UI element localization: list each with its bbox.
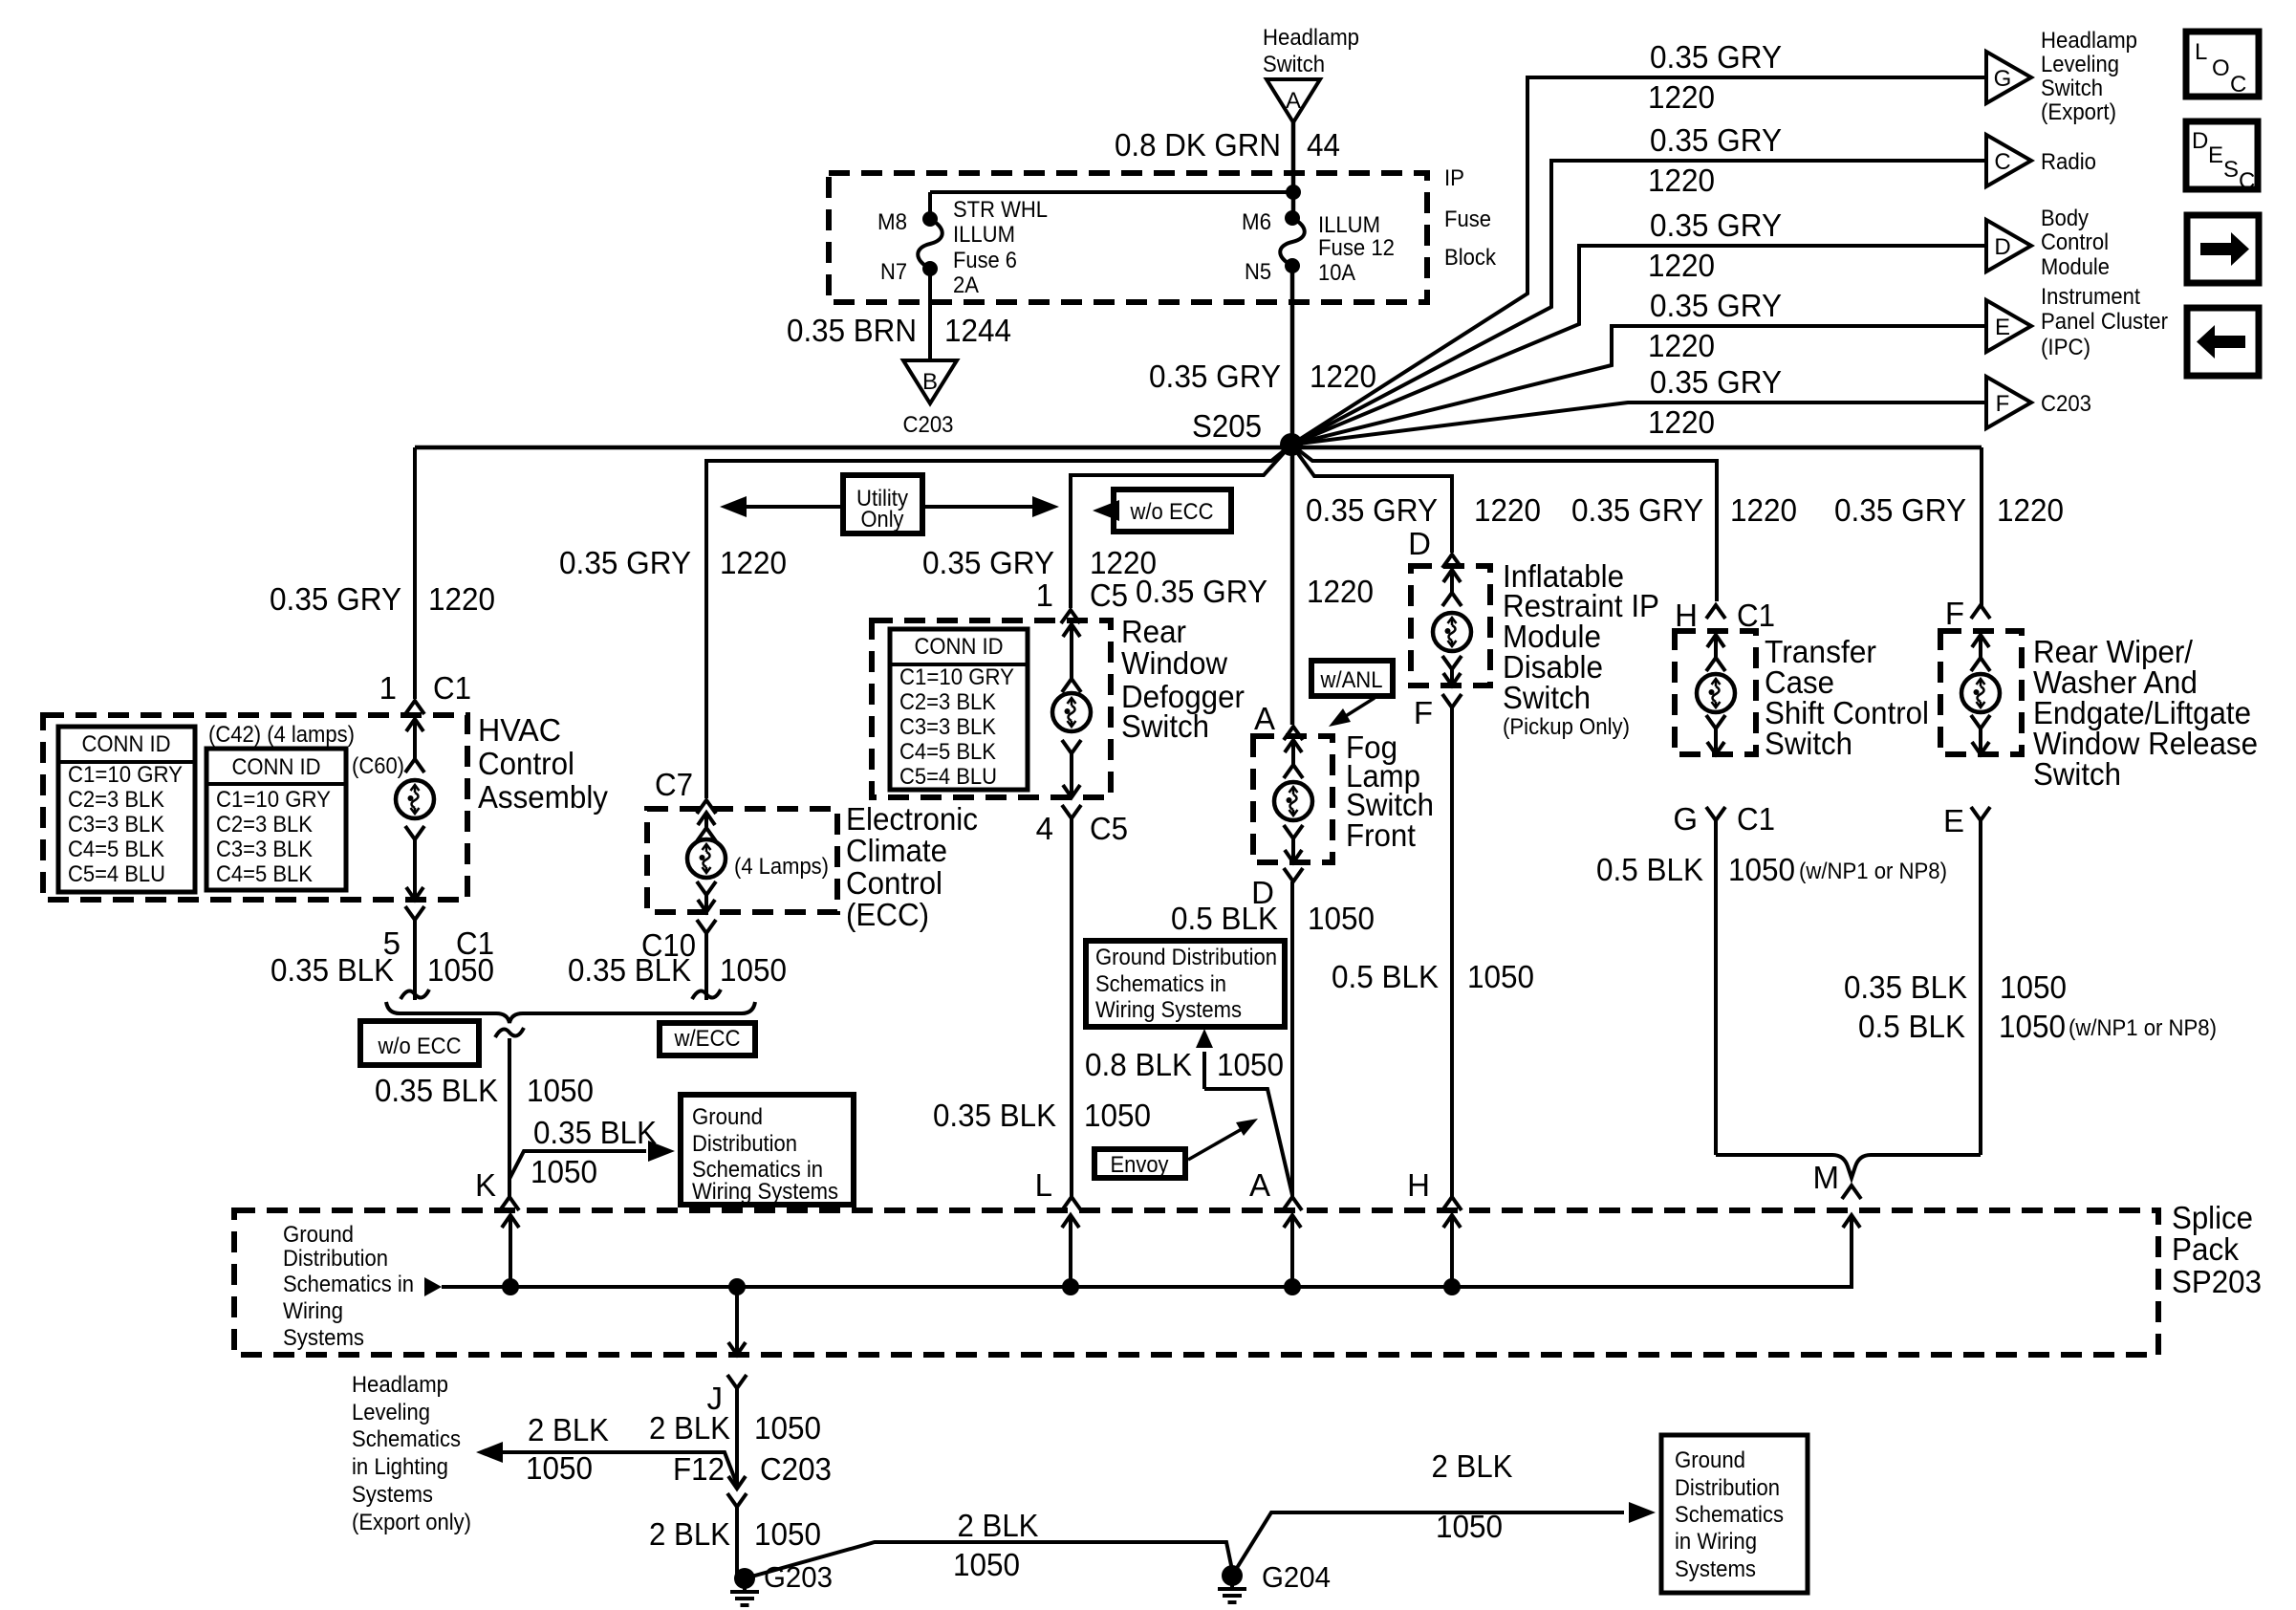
svg-text:Electronic: Electronic	[846, 801, 978, 837]
svg-text:Fuse 6: Fuse 6	[953, 248, 1017, 273]
svg-text:1050: 1050	[754, 1516, 821, 1552]
svg-text:Schematics in: Schematics in	[283, 1272, 414, 1297]
svg-text:(Export only): (Export only)	[352, 1510, 471, 1535]
svg-text:C4=5 BLK: C4=5 BLK	[68, 837, 164, 862]
svg-text:Schematics: Schematics	[1675, 1502, 1784, 1528]
svg-text:2 BLK: 2 BLK	[649, 1410, 730, 1446]
svg-text:H: H	[1675, 598, 1698, 633]
svg-text:A: A	[1249, 1167, 1270, 1203]
svg-text:Envoy: Envoy	[1111, 1152, 1169, 1178]
svg-text:K: K	[475, 1167, 496, 1203]
svg-text:C1: C1	[433, 670, 471, 706]
svg-text:Headlamp: Headlamp	[2041, 28, 2137, 54]
svg-text:E: E	[2208, 142, 2223, 168]
svg-text:M6: M6	[1242, 209, 1271, 235]
svg-text:1220: 1220	[1648, 328, 1715, 363]
svg-text:0.35 GRY: 0.35 GRY	[1650, 364, 1782, 400]
svg-text:Headlamp: Headlamp	[352, 1372, 448, 1398]
svg-text:0.5 BLK: 0.5 BLK	[1332, 959, 1439, 994]
svg-text:Radio: Radio	[2041, 149, 2096, 175]
svg-text:Ground: Ground	[1675, 1447, 1745, 1473]
svg-text:S: S	[2223, 157, 2239, 183]
svg-text:0.35 GRY: 0.35 GRY	[270, 581, 401, 617]
svg-text:G204: G204	[1262, 1560, 1331, 1594]
svg-text:STR WHL: STR WHL	[953, 197, 1048, 223]
svg-text:F: F	[1996, 391, 2010, 417]
svg-text:C3=3 BLK: C3=3 BLK	[68, 812, 164, 838]
svg-text:1050: 1050	[427, 952, 494, 988]
svg-text:0.35 BLK: 0.35 BLK	[533, 1115, 657, 1150]
svg-text:1050: 1050	[953, 1547, 1020, 1582]
svg-text:G: G	[1673, 801, 1698, 837]
svg-text:2 BLK: 2 BLK	[649, 1516, 730, 1552]
svg-text:0.35 GRY: 0.35 GRY	[559, 545, 691, 580]
svg-text:C1: C1	[1737, 801, 1775, 837]
svg-text:0.35 BRN: 0.35 BRN	[787, 313, 917, 348]
svg-text:Wiring Systems: Wiring Systems	[692, 1179, 838, 1205]
svg-text:0.35 GRY: 0.35 GRY	[1149, 359, 1281, 394]
svg-text:Instrument: Instrument	[2041, 284, 2140, 310]
svg-text:Switch: Switch	[1765, 726, 1852, 761]
svg-text:2 BLK: 2 BLK	[958, 1508, 1039, 1543]
svg-text:Body: Body	[2041, 206, 2089, 231]
svg-text:1050: 1050	[1308, 901, 1375, 936]
svg-text:C1=10 GRY: C1=10 GRY	[68, 762, 183, 788]
svg-text:L: L	[1035, 1167, 1052, 1203]
svg-text:2 BLK: 2 BLK	[1432, 1448, 1513, 1484]
svg-text:2 BLK: 2 BLK	[528, 1412, 609, 1447]
svg-text:Pack: Pack	[2172, 1231, 2239, 1267]
svg-text:Control: Control	[478, 746, 574, 781]
svg-text:2A: 2A	[953, 272, 979, 298]
svg-text:L: L	[2195, 39, 2207, 65]
svg-text:1: 1	[1036, 577, 1053, 613]
svg-text:1050: 1050	[1084, 1098, 1151, 1133]
svg-text:F: F	[1414, 695, 1433, 730]
svg-text:Ground: Ground	[692, 1104, 763, 1130]
svg-text:M: M	[1813, 1160, 1840, 1195]
svg-text:0.35 GRY: 0.35 GRY	[922, 545, 1054, 580]
svg-text:1: 1	[379, 670, 397, 706]
svg-text:C3=3 BLK: C3=3 BLK	[899, 714, 996, 740]
svg-text:A: A	[1286, 88, 1301, 114]
svg-text:1050: 1050	[1436, 1509, 1503, 1544]
svg-text:H: H	[1407, 1167, 1430, 1203]
svg-text:0.35 GRY: 0.35 GRY	[1650, 122, 1782, 158]
svg-text:F: F	[1945, 596, 1964, 631]
svg-text:C2=3 BLK: C2=3 BLK	[899, 689, 996, 715]
svg-text:Leveling: Leveling	[352, 1400, 430, 1425]
svg-text:CONN ID: CONN ID	[232, 754, 321, 780]
svg-text:1244: 1244	[944, 313, 1011, 348]
svg-text:Switch: Switch	[1263, 52, 1325, 77]
svg-text:C4=5 BLK: C4=5 BLK	[899, 739, 996, 765]
svg-text:A: A	[1254, 701, 1275, 736]
svg-text:1050: 1050	[1217, 1047, 1284, 1082]
svg-text:0.35 GRY: 0.35 GRY	[1650, 39, 1782, 75]
svg-text:Leveling: Leveling	[2041, 52, 2119, 77]
svg-text:C203: C203	[903, 412, 954, 438]
svg-text:Block: Block	[1444, 245, 1497, 271]
svg-text:0.35 GRY: 0.35 GRY	[1571, 492, 1703, 528]
svg-text:(Export): (Export)	[2041, 99, 2116, 125]
svg-text:D: D	[1994, 234, 2010, 260]
svg-text:S205: S205	[1192, 408, 1262, 444]
svg-text:in Wiring: in Wiring	[1675, 1529, 1757, 1555]
svg-text:Control: Control	[846, 865, 942, 901]
svg-text:F12: F12	[673, 1451, 725, 1487]
svg-text:Splice: Splice	[2172, 1200, 2253, 1235]
svg-text:G: G	[1994, 66, 2012, 92]
svg-text:Ground: Ground	[283, 1222, 354, 1248]
svg-text:B: B	[922, 369, 938, 395]
svg-text:CONN ID: CONN ID	[915, 634, 1004, 660]
svg-text:1220: 1220	[1730, 492, 1797, 528]
svg-text:Switch: Switch	[2033, 756, 2121, 792]
svg-text:1220: 1220	[1997, 492, 2064, 528]
svg-text:Window: Window	[1121, 645, 1227, 681]
svg-text:w/o ECC: w/o ECC	[378, 1033, 462, 1059]
svg-text:1050: 1050	[1728, 852, 1795, 887]
svg-text:Assembly: Assembly	[478, 779, 608, 815]
svg-text:C5: C5	[1090, 577, 1128, 613]
svg-text:C203: C203	[2041, 391, 2091, 417]
svg-text:HVAC: HVAC	[478, 712, 561, 748]
svg-text:1050: 1050	[531, 1154, 597, 1189]
svg-text:(Pickup Only): (Pickup Only)	[1503, 714, 1630, 740]
svg-text:Systems: Systems	[352, 1482, 433, 1508]
svg-text:(4 Lamps): (4 Lamps)	[734, 854, 829, 880]
svg-text:Switch: Switch	[1503, 680, 1591, 715]
svg-text:O: O	[2212, 55, 2230, 81]
svg-text:Panel Cluster: Panel Cluster	[2041, 309, 2168, 335]
svg-text:Schematics in: Schematics in	[1095, 971, 1226, 997]
svg-text:SP203: SP203	[2172, 1264, 2262, 1299]
svg-text:1220: 1220	[720, 545, 787, 580]
svg-text:0.35 GRY: 0.35 GRY	[1834, 492, 1966, 528]
svg-text:Fuse: Fuse	[1444, 207, 1491, 232]
svg-text:1220: 1220	[1307, 574, 1374, 609]
svg-text:Ground Distribution: Ground Distribution	[1095, 945, 1277, 970]
svg-text:ILLUM: ILLUM	[953, 222, 1015, 248]
svg-text:0.35 GRY: 0.35 GRY	[1650, 207, 1782, 243]
svg-text:w/ANL: w/ANL	[1320, 667, 1383, 693]
svg-text:IP: IP	[1444, 165, 1464, 191]
svg-text:1050: 1050	[1467, 959, 1534, 994]
svg-text:1220: 1220	[1310, 359, 1376, 394]
svg-text:C2=3 BLK: C2=3 BLK	[68, 787, 164, 813]
svg-text:N7: N7	[880, 259, 907, 285]
svg-text:(IPC): (IPC)	[2041, 335, 2090, 360]
svg-text:Fuse 12: Fuse 12	[1318, 235, 1395, 261]
svg-text:Control: Control	[2041, 229, 2109, 255]
svg-text:(w/NP1 or NP8): (w/NP1 or NP8)	[1799, 859, 1947, 884]
svg-text:Headlamp: Headlamp	[1263, 25, 1359, 51]
svg-text:C: C	[2239, 168, 2255, 194]
svg-text:1220: 1220	[1648, 163, 1715, 198]
svg-text:1050: 1050	[754, 1410, 821, 1446]
svg-text:C203: C203	[760, 1451, 832, 1487]
svg-text:C: C	[2230, 72, 2246, 98]
svg-text:Distribution: Distribution	[692, 1131, 797, 1157]
svg-text:C4=5 BLK: C4=5 BLK	[216, 861, 313, 887]
svg-text:(C60): (C60)	[352, 753, 404, 779]
svg-text:0.35 BLK: 0.35 BLK	[271, 952, 394, 988]
svg-text:Distribution: Distribution	[283, 1246, 388, 1272]
svg-text:Climate: Climate	[846, 833, 947, 868]
svg-text:0.5 BLK: 0.5 BLK	[1171, 901, 1278, 936]
svg-text:1050: 1050	[527, 1073, 594, 1108]
svg-text:E: E	[1995, 315, 2010, 340]
svg-text:Distribution: Distribution	[1675, 1475, 1780, 1501]
svg-text:4: 4	[1036, 811, 1053, 846]
svg-text:Rear: Rear	[1121, 614, 1186, 649]
svg-text:C2=3 BLK: C2=3 BLK	[216, 812, 313, 838]
svg-text:0.5 BLK: 0.5 BLK	[1858, 1009, 1965, 1044]
svg-text:Switch: Switch	[2041, 76, 2103, 101]
svg-text:0.5 BLK: 0.5 BLK	[1596, 852, 1703, 887]
svg-text:ILLUM: ILLUM	[1318, 212, 1380, 238]
svg-text:Only: Only	[861, 507, 904, 533]
svg-text:1220: 1220	[1474, 492, 1541, 528]
svg-text:1220: 1220	[1648, 248, 1715, 283]
svg-text:0.8 DK GRN: 0.8 DK GRN	[1115, 127, 1281, 163]
svg-text:C1: C1	[1737, 598, 1775, 633]
svg-text:Module: Module	[2041, 254, 2110, 280]
svg-text:Switch: Switch	[1121, 708, 1209, 744]
svg-text:Systems: Systems	[283, 1325, 364, 1351]
svg-text:0.35 BLK: 0.35 BLK	[568, 952, 691, 988]
svg-text:0.35 BLK: 0.35 BLK	[1844, 969, 1967, 1005]
svg-text:0.8 BLK: 0.8 BLK	[1085, 1047, 1192, 1082]
svg-text:N5: N5	[1245, 259, 1271, 285]
svg-text:0.35 GRY: 0.35 GRY	[1136, 574, 1267, 609]
svg-text:(w/NP1 or NP8): (w/NP1 or NP8)	[2069, 1015, 2217, 1041]
svg-text:Wiring Systems: Wiring Systems	[1095, 997, 1242, 1023]
svg-text:Front: Front	[1346, 817, 1416, 853]
svg-text:1050: 1050	[720, 952, 787, 988]
svg-text:D: D	[1408, 526, 1431, 561]
svg-text:C5=4 BLU: C5=4 BLU	[68, 861, 165, 887]
svg-text:C: C	[1994, 149, 2010, 175]
svg-text:10A: 10A	[1318, 260, 1355, 286]
svg-text:C1=10 GRY: C1=10 GRY	[899, 664, 1014, 690]
svg-text:C5=4 BLU: C5=4 BLU	[899, 764, 997, 790]
svg-text:0.35 GRY: 0.35 GRY	[1650, 288, 1782, 323]
svg-text:(ECC): (ECC)	[846, 897, 929, 932]
svg-text:Schematics: Schematics	[352, 1426, 461, 1452]
svg-text:w/ECC: w/ECC	[674, 1026, 741, 1052]
svg-text:1050: 1050	[1999, 1009, 2066, 1044]
svg-text:D: D	[2192, 128, 2208, 154]
svg-text:0.35 BLK: 0.35 BLK	[933, 1098, 1056, 1133]
svg-text:Systems: Systems	[1675, 1556, 1756, 1582]
svg-text:C5: C5	[1090, 811, 1128, 846]
svg-text:44: 44	[1307, 127, 1340, 163]
svg-text:1050: 1050	[2000, 969, 2067, 1005]
svg-text:0.35 BLK: 0.35 BLK	[375, 1073, 498, 1108]
svg-text:w/o ECC: w/o ECC	[1130, 499, 1214, 525]
svg-text:C1=10 GRY: C1=10 GRY	[216, 787, 331, 813]
svg-text:C7: C7	[655, 767, 693, 802]
svg-text:1220: 1220	[1648, 404, 1715, 440]
svg-text:(C42) (4 lamps): (C42) (4 lamps)	[208, 722, 355, 748]
svg-text:1220: 1220	[428, 581, 495, 617]
svg-text:M8: M8	[877, 209, 907, 235]
svg-text:Wiring: Wiring	[283, 1298, 343, 1324]
svg-text:CONN ID: CONN ID	[82, 731, 171, 757]
svg-text:C3=3 BLK: C3=3 BLK	[216, 837, 313, 862]
svg-text:1220: 1220	[1648, 79, 1715, 115]
svg-text:0.35 GRY: 0.35 GRY	[1306, 492, 1438, 528]
svg-text:E: E	[1943, 803, 1964, 838]
svg-text:in Lighting: in Lighting	[352, 1454, 448, 1480]
svg-text:1050: 1050	[526, 1450, 593, 1486]
